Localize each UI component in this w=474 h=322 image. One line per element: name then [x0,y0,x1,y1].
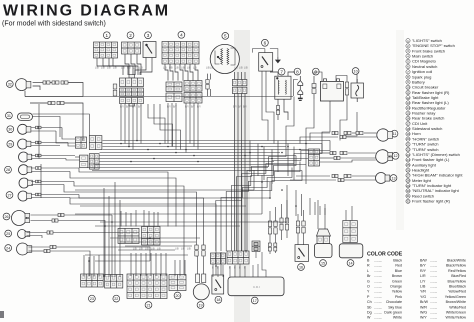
svg-text:Red/Yellow: Red/Yellow [448,269,466,273]
svg-text:24: 24 [6,246,10,250]
svg-text:L/B: L/B [145,248,149,251]
svg-text:W/Y: W/Y [420,316,427,320]
label 31 reed switch [5,112,12,119]
legend list [406,38,464,204]
mid-left connector E2 [89,136,102,150]
svg-text:........: ........ [430,269,437,273]
svg-text:W: W [367,316,371,320]
ignition coil T1 [275,76,291,99]
label 27 HIGH BEAM indicator [6,192,13,199]
wire group: left flasher R to center [33,82,43,84]
svg-text:21: 21 [406,142,410,146]
junction dots [120,143,122,145]
bracket wire left group A [38,104,40,159]
staircase wires descending to CDI connectors [247,141,330,252]
wire bends from indicator wires into connectors E/F [62,128,75,140]
svg-text:Green: Green [392,279,402,283]
svg-text:B/Y: B/Y [126,106,130,109]
svg-text:18: 18 [216,298,220,302]
svg-text:.........: ......... [374,311,382,315]
svg-text:L/B: L/B [139,248,143,251]
svg-text:........: ........ [430,295,437,299]
reed switch S31 [18,113,33,120]
plug lead fuse [276,106,279,115]
svg-text:Black/White: Black/White [447,259,466,263]
svg-text:B/Y: B/Y [167,106,171,109]
svg-text:11: 11 [406,91,409,95]
svg-text:L/B: L/B [151,248,155,251]
front brake switch box U3 [143,42,156,58]
svg-text:L/B: L/B [121,67,125,70]
svg-text:Orange: Orange [390,285,402,289]
fuse pair above rear brake switch [268,221,271,234]
svg-text:3: 3 [147,33,150,38]
label 15 flasher relay [320,260,327,267]
svg-text:L/B: L/B [95,67,99,70]
label 8 spark plug [294,68,301,75]
svg-text:Pink: Pink [395,295,402,299]
rear flasher light (L) LP13 [376,173,390,184]
mid-left connector F2 [89,154,99,169]
svg-text:.........: ......... [374,285,382,289]
label 3 front brake switch [145,32,152,39]
svg-text:R/Y: R/Y [420,269,427,273]
label 16 rear brake switch [298,264,305,271]
TURN indicator light LP29 [18,139,31,149]
main fuse F1 [312,84,316,94]
label 7 ignition coil [278,68,285,75]
svg-text:........: ........ [430,305,437,309]
svg-text:26: 26 [4,215,8,219]
flasher relay RL15 [315,244,333,258]
NEUTRAL indicator light LP30 [18,124,31,134]
svg-text:L/B: L/B [239,67,243,70]
front flasher light (R) LP32 [16,79,31,91]
wire group: aux light leads [27,232,48,234]
svg-text:.........: ......... [374,269,382,273]
wire verticals to CDI unit [212,264,214,277]
fuse pair above CDI left [268,243,271,251]
label 30 NEUTRAL indicator [7,126,14,133]
svg-text:16: 16 [299,265,303,269]
svg-text:B/Y: B/Y [138,106,142,109]
wire group: reed switch leads [33,117,61,138]
svg-text:.........: ......... [374,290,382,294]
svg-text:2: 2 [129,33,132,38]
connector pair B top [166,82,182,92]
svg-text:21: 21 [146,303,150,307]
svg-text:11: 11 [393,132,397,136]
wire group: ignition coil leads [270,72,278,76]
tail light connector [309,149,320,166]
wire group: battery/breaker [313,76,315,84]
svg-text:B/Y: B/Y [191,106,195,109]
svg-text:.........: ......... [374,274,382,278]
svg-text:L/B: L/B [234,67,238,70]
svg-text:B/Y: B/Y [197,106,201,109]
connector pair B bottom [166,93,182,102]
svg-text:........: ........ [430,285,437,289]
svg-text:L/B: L/B [133,248,137,251]
svg-text:L/B: L/B [157,248,161,251]
label 14 rectifier/regulator [347,260,354,267]
svg-text:Dark green: Dark green [384,311,402,315]
svg-text:19: 19 [198,303,202,307]
svg-text:L/B: L/B [101,67,105,70]
svg-text:White: White [393,316,402,320]
label 6 neutral switch [262,39,269,46]
svg-text:15: 15 [321,261,325,265]
scan shading band [234,30,250,322]
connector pair C bottom [184,93,202,104]
label 4 main switch [178,31,185,38]
label 5 CDI magneto [222,33,229,40]
magneto connector bottom [232,87,247,93]
svg-text:.........: ......... [374,264,382,268]
wire verticals to bottom blocks [83,255,85,277]
svg-text:B/Y: B/Y [420,264,426,268]
HIGH BEAM indicator light LP27 [18,191,31,201]
svg-text:24: 24 [406,158,410,162]
wires from fuse pair above horn down [197,257,198,275]
svg-text:23: 23 [406,153,410,157]
svg-text:Brown/White: Brown/White [446,300,466,304]
svg-text:8: 8 [296,69,299,74]
svg-text:Yellow/Green: Yellow/Green [445,295,466,299]
svg-text:Y/R: Y/R [420,290,426,294]
handlebar connector stack b [120,88,144,96]
svg-text:27: 27 [406,174,410,178]
wire verticals above mid connectors D [120,211,122,227]
svg-text:5: 5 [224,34,227,39]
page edge mark bottom left [0,311,4,318]
svg-text:White/Yellow: White/Yellow [446,316,467,320]
horn B19 [193,274,209,300]
connector "TURN" switch 22 [105,275,123,289]
small dark connector right of CDI connectors [252,241,260,252]
svg-text:4: 4 [180,33,183,38]
mid-left connector F1 [80,155,88,168]
svg-text:13: 13 [406,101,410,105]
svg-text:32: 32 [406,199,410,203]
svg-text:30: 30 [8,128,12,132]
svg-text:17: 17 [406,122,410,126]
rectifier/regulator U14 [339,244,363,258]
flasher relay connector [317,236,330,244]
svg-text:12: 12 [393,154,397,158]
fuse below magneto [206,80,209,90]
svg-text:Blue/Yellow: Blue/Yellow [448,279,467,283]
mid-left connector E1 [75,137,86,148]
tail/brake light LP12 [376,150,393,164]
svg-text:L/B: L/B [420,285,426,289]
handlebar connector stack tab [129,75,135,79]
svg-text:COLOR CODE: COLOR CODE [367,252,403,258]
wire group: indicator bulbs to bus [31,127,62,129]
label 20 HORN switch [174,292,181,299]
svg-text:Sky blue: Sky blue [388,305,402,309]
svg-text:C.D.I: C.D.I [253,285,260,289]
label 25 auxiliary light [5,230,12,237]
label 21 TURN switch [145,302,152,309]
svg-text:Black/Yellow: Black/Yellow [446,264,466,268]
svg-text:B/Y: B/Y [238,106,242,109]
mid connector D2 [142,227,161,246]
spark plug PL1 [294,76,303,100]
svg-text:........: ........ [430,279,437,283]
circuit breaker CB1 [351,79,364,102]
fuse pair above horn [195,245,198,256]
svg-text:1: 1 [106,33,109,38]
svg-text:B/Y: B/Y [132,106,136,109]
label 18 sidestand switch [215,296,222,303]
wire verticals from connector stacks into band [120,104,122,141]
svg-text:23: 23 [90,297,94,301]
svg-text:10: 10 [406,85,410,89]
svg-text:L/B: L/B [163,67,167,70]
svg-text:........: ........ [430,290,437,294]
svg-text:16: 16 [406,117,410,121]
svg-text:(For model with sidestand swit: (For model with sidestand switch) [2,21,106,28]
svg-text:.........: ......... [374,300,382,304]
svg-text:Br/W: Br/W [420,300,429,304]
svg-text:28: 28 [6,168,10,172]
svg-text:L/B: L/B [113,67,117,70]
svg-text:W/R: W/R [420,305,427,309]
svg-text:........: ........ [430,311,437,315]
svg-text:B/Y: B/Y [185,106,189,109]
label 32 front flasher light R [6,81,13,88]
svg-text:L/B: L/B [187,248,191,251]
tiny wire color labels [95,67,248,270]
label 11 rear flasher light R [391,130,398,137]
CDI connector block B [227,251,249,264]
color code table [367,252,466,320]
connector "LIGHTS" switch U1 [94,42,118,58]
svg-text:Brown: Brown [392,274,402,278]
label 1 "LIGHTS" switch [103,32,110,39]
handlebar switch block 21 [127,274,167,299]
staircase wires upper right into band [262,71,268,140]
svg-text:B/Y: B/Y [173,106,177,109]
svg-text:Red: Red [395,264,402,268]
svg-text:L/B: L/B [244,67,248,70]
label 22 TURN switch [113,295,120,302]
svg-text:........: ........ [430,264,437,268]
svg-text:27: 27 [7,193,11,197]
connector "HORN" switch 20 [169,275,186,291]
CDI magneto G1 [210,44,239,73]
connector "LIGHTS" dimmer switch 23 [81,274,104,287]
meter light LP28c [19,178,32,188]
svg-text:L/Y: L/Y [420,279,426,283]
svg-text:Yellow: Yellow [392,290,403,294]
wire: band to rear flasher L 13 [296,175,330,177]
svg-text:L/B: L/B [133,67,137,70]
svg-text:Blue: Blue [395,269,402,273]
magneto connector top [232,80,247,86]
label 10 circuit breaker [352,68,359,75]
svg-text:18: 18 [406,127,410,131]
svg-text:19: 19 [406,132,410,136]
scan shading band right [396,30,404,230]
wire steps connecting lower bus [253,170,255,190]
svg-text:B/Y: B/Y [120,106,124,109]
svg-text:........: ........ [430,274,437,278]
svg-text:........: ........ [430,259,437,263]
svg-text:L/B: L/B [139,67,143,70]
svg-text:Dg: Dg [367,311,372,315]
svg-text:L/B: L/B [187,67,191,70]
svg-text:.........: ......... [374,295,382,299]
svg-text:17: 17 [253,299,257,303]
svg-text:Chocolate: Chocolate [386,300,402,304]
wire group: headlight leads [31,214,59,216]
label 26 headlight [3,213,10,220]
rear flasher light (R) LP11 [377,129,393,141]
svg-text:22: 22 [406,148,410,152]
label 17 CDI unit [251,297,258,304]
wires at fuse pair 3 [281,204,283,218]
wire bus: central horizontal band [103,140,331,142]
svg-text:12: 12 [406,96,410,100]
label 13 rear flasher light L [390,175,397,182]
svg-text:G: G [367,279,370,283]
svg-text:14: 14 [348,261,352,265]
auxiliary light LP25 [18,230,30,239]
wire: connector to tail light 12 [320,152,331,154]
svg-text:B/W: B/W [420,259,427,263]
svg-text:White/Green: White/Green [446,311,466,315]
wire group: top blocks to connector stacks [97,58,123,75]
svg-text:L/B: L/B [107,67,111,70]
flasher relay trapezoid connector [317,229,331,236]
wire group: lower long horizontals [75,189,254,191]
wire group: magneto down [207,74,209,80]
label 28 meter light [5,166,12,173]
svg-text:31: 31 [406,194,410,198]
rectifier connector [343,221,358,243]
handlebar connector stack a [120,78,144,87]
label 23 LIGHTS dimmer switch [89,295,96,302]
mid connector D1 [118,228,139,243]
svg-text:L/B: L/B [169,67,173,70]
svg-text:.........: ......... [374,279,382,283]
svg-text:29: 29 [406,184,410,188]
svg-text:Black: Black [393,259,402,263]
svg-text:Sb: Sb [367,305,371,309]
svg-text:Ch: Ch [367,300,372,304]
svg-text:14: 14 [406,106,410,110]
connector pair C top [184,81,202,92]
svg-text:29: 29 [8,142,12,146]
svg-text:L/B: L/B [193,67,197,70]
svg-text:WIRING DIAGRAM: WIRING DIAGRAM [3,3,170,20]
svg-text:Yellow/Red: Yellow/Red [448,290,466,294]
svg-text:20: 20 [175,294,179,298]
svg-text:31: 31 [7,114,11,118]
svg-text:.........: ......... [374,316,382,320]
svg-text:White/Red: White/Red [449,305,466,309]
svg-text:O: O [367,285,370,289]
svg-text:Blue/Red: Blue/Red [451,274,466,278]
ground symbol at neutral switch [276,57,281,63]
meter light LP28a [19,152,32,162]
svg-text:25: 25 [406,163,410,167]
inline connectors on indicator wires [36,126,42,129]
label 2 "ENGINE STOP" switch [127,32,134,39]
wire group: main switch to connectors [165,64,168,81]
wire verticals right side of band [249,141,251,173]
svg-text:10: 10 [354,69,358,73]
svg-text:L: L [367,269,369,273]
svg-text:L/R: L/R [420,274,426,278]
svg-text:........: ........ [430,300,437,304]
CDI unit U17 [228,277,284,296]
svg-text:.........: ......... [374,305,382,309]
neutral switch S6 [253,49,278,72]
svg-text:30: 30 [406,189,410,193]
fuse pair 3 middle [280,218,283,230]
wire pair stepping down [25,96,83,98]
connector "ENGINE STOP" switch U2 [122,42,141,54]
rear brake switch S16 [295,245,309,262]
connector main switch U4 [162,42,199,65]
handlebar connector stack bottom tab [129,104,135,107]
headlight LP26 [12,211,30,226]
svg-text:15: 15 [406,111,410,115]
wire: band to right bulbs 11 [310,133,330,141]
svg-text:22: 22 [114,297,118,301]
svg-text:25: 25 [6,232,10,236]
svg-text:Front flasher light (R): Front flasher light (R) [412,199,451,204]
sidestand switch S18 [212,275,224,294]
svg-text:L/B: L/B [127,67,131,70]
label 24 front flasher light L [5,245,12,252]
svg-text:.........: ......... [374,259,382,263]
relay feed wires [317,200,319,229]
battery side fuse [345,82,348,95]
svg-text:L/B: L/B [181,248,185,251]
svg-text:Y/G: Y/G [420,295,426,299]
label 12 tail/brake light [392,152,399,159]
svg-text:L/B: L/B [181,67,185,70]
svg-text:28: 28 [406,179,410,183]
bracket wire left group B [40,164,42,198]
svg-text:13: 13 [391,176,395,180]
meter light LP28b [19,165,32,175]
svg-text:L/B: L/B [175,248,179,251]
svg-text:Blue/Black: Blue/Black [449,285,466,289]
svg-text:20: 20 [406,137,410,141]
svg-text:R: R [367,264,370,268]
wires to rear brake switch and relay [269,211,271,221]
svg-text:6: 6 [264,41,267,46]
handlebar connector stack c [120,98,144,104]
label 29 TURN indicator [7,141,14,148]
label 9 battery [312,68,319,75]
svg-text:B/Y: B/Y [233,106,237,109]
svg-text:W/G: W/G [420,311,427,315]
wire group: front flasher L leads [29,246,51,248]
svg-text:L/B: L/B [175,67,179,70]
fuse pair left [113,84,117,96]
svg-text:7: 7 [280,69,283,74]
svg-text:32: 32 [8,82,12,86]
battery BT1 [320,79,343,101]
front flasher light (L) LP24 [17,243,32,255]
fuse pair 2 above rear brake switch [296,221,299,233]
